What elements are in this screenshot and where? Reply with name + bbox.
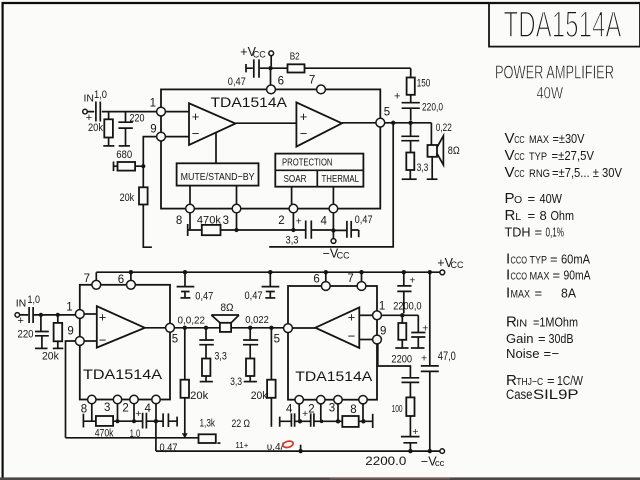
svg-text:2200: 2200 (391, 354, 412, 366)
node feedback tap (391, 121, 395, 125)
+Vcc rail (bottom circuit) (96, 272, 440, 280)
pin 6 (U3) (313, 274, 330, 291)
svg-text:=: = (553, 268, 561, 283)
svg-text:CC: CC (253, 50, 266, 60)
svg-text:V: V (505, 164, 515, 181)
svg-text:7: 7 (84, 273, 90, 285)
svg-text:CC: CC (337, 251, 350, 261)
svg-text:Case: Case (506, 387, 533, 402)
op-amp A1 (U1 first stage) (189, 103, 236, 145)
resistor (bias divider) (398, 315, 406, 347)
capacitor 0,47 (rail decoupling 1) (177, 272, 214, 302)
svg-text:IN: IN (16, 297, 27, 309)
pin 7 (U1) (309, 75, 326, 94)
pin 1 (U1) (150, 98, 166, 116)
svg-text:3,3: 3,3 (214, 351, 227, 363)
capacitor 1,0 elco (U2 fb) (130, 408, 156, 440)
svg-text:−: − (99, 332, 107, 347)
resistor 470k (U2) (95, 416, 114, 440)
svg-text:7: 7 (347, 273, 353, 285)
svg-text:4: 4 (321, 216, 328, 228)
svg-text:RNG: RNG (529, 168, 550, 180)
U3 bottom network: left tick (280, 417, 291, 427)
svg-text:7: 7 (309, 75, 315, 87)
ground (rail cap1) (181, 297, 191, 299)
node boucherot tap (408, 121, 412, 125)
pin 7 (U3) (347, 273, 366, 290)
svg-text:1: 1 (66, 302, 72, 314)
svg-text:−: − (300, 126, 308, 141)
resistor 470k (top feedback) (197, 214, 221, 235)
svg-text:47,0: 47,0 (438, 351, 456, 363)
capacitor 220 (top input) (118, 112, 144, 146)
svg-text:+: + (99, 309, 107, 324)
wire speaker to ground (431, 157, 433, 179)
svg-text:1,0: 1,0 (94, 89, 107, 101)
svg-text:TYP: TYP (530, 254, 548, 266)
pin 7 (U2) (84, 273, 101, 289)
wire pin9 left (143, 137, 156, 167)
MUTE/STAND-BY box (177, 163, 259, 185)
pin 5 (U2) (166, 323, 179, 345)
capacitor (U3 pin4 left) (291, 413, 300, 426)
svg-text:1,3k: 1,3k (200, 418, 216, 430)
svg-text:8: 8 (350, 404, 356, 416)
svg-text:0,47: 0,47 (245, 290, 263, 302)
svg-text:6: 6 (313, 274, 319, 286)
node pin3 riser (236, 213, 238, 230)
svg-text:9: 9 (150, 124, 156, 136)
node pin4R riser (298, 404, 300, 421)
svg-text:90mA: 90mA (564, 268, 591, 283)
node rail/pin6R (324, 270, 328, 274)
svg-text:MUTE/STAND−BY: MUTE/STAND−BY (181, 171, 255, 183)
wire A2 out to pin5 (342, 122, 376, 124)
pin 4 (U2) (145, 395, 161, 415)
node input/220 (39, 313, 43, 317)
node stub (298, 449, 302, 453)
svg-text:+: + (296, 215, 302, 227)
svg-text:=: = (535, 285, 543, 300)
node 2200/100 chain end (408, 449, 412, 453)
svg-text:=±7,5... ± 30V: =±7,5... ± 30V (552, 165, 622, 180)
resistor 3,3 (boucherot R) (230, 359, 254, 388)
pin 2 (U3) (308, 396, 325, 416)
node pin1R bias (400, 313, 404, 317)
pin 4 (U3) (286, 396, 303, 416)
svg-text:CCO: CCO (511, 255, 528, 266)
svg-text:40W: 40W (540, 191, 563, 206)
capacitor 3,3 elco (top feedback) (286, 215, 332, 246)
svg-text:MAX: MAX (530, 271, 551, 283)
svg-text:2: 2 (278, 215, 284, 227)
svg-text:40W: 40W (537, 84, 564, 103)
svg-text:SIL9P: SIL9P (533, 386, 579, 402)
wire A1 out to A2 (236, 122, 297, 124)
svg-text:+: + (421, 352, 427, 364)
svg-text:CC: CC (514, 135, 525, 146)
resistor 1,3k (199, 418, 221, 444)
wire pin1R to A4 (359, 314, 372, 316)
svg-text:30dB: 30dB (549, 331, 574, 346)
capacitor 1,0 (bottom input) (20, 294, 76, 323)
svg-text:THERMAL: THERMAL (322, 173, 360, 185)
ground (rail cap2) (265, 297, 275, 299)
wire pin4 down (332, 213, 334, 239)
title box (489, 3, 640, 47)
svg-text:20k: 20k (251, 390, 268, 402)
pin 1 (U2) (66, 302, 84, 319)
svg-text:9: 9 (67, 326, 73, 338)
node pin3R riser (337, 404, 339, 421)
wire pin9L left and down (66, 341, 76, 438)
svg-text:100: 100 (392, 403, 403, 415)
svg-text:R: R (505, 207, 516, 224)
wire pin6 riser (270, 68, 272, 85)
svg-text:5: 5 (172, 333, 178, 345)
-Vcc terminal (bottom) (421, 449, 445, 469)
speaker 8 Ohm (top circuit) (428, 136, 460, 165)
wire pin1 to A1 (165, 111, 189, 113)
svg-text:0,47: 0,47 (355, 214, 373, 226)
svg-text:TDA1514A: TDA1514A (295, 369, 372, 384)
capacitor elco (U3 fb bottom) (401, 426, 420, 451)
resistor 100 (392, 397, 415, 436)
svg-text:11+: 11+ (235, 441, 248, 450)
capacitor 0,22 (boucherot) (401, 123, 419, 153)
svg-text:20k: 20k (120, 192, 135, 204)
ground (20k bottom) (53, 347, 64, 349)
pin 2 (U1) (278, 204, 298, 227)
U2 bottom network: left tick (83, 414, 96, 428)
wire pin1R right (381, 314, 418, 316)
resistor 680 (114, 149, 144, 171)
svg-text:−: − (552, 346, 560, 361)
wire mute to pin8 (189, 186, 191, 205)
svg-text:=: = (550, 251, 558, 266)
svg-text:V: V (505, 147, 515, 164)
ground (under speaker) (427, 178, 438, 180)
ground (boucherot R) (244, 381, 257, 383)
svg-text:+: + (422, 322, 428, 334)
ground (under 220) (119, 145, 130, 147)
capacitor 220 (bottom input) (18, 315, 49, 348)
node boucherot L tap (204, 326, 208, 330)
output bridge wire right (231, 327, 283, 329)
IC U2 TDA1514A package box (bottom left) (80, 285, 170, 400)
svg-text:1,0: 1,0 (130, 428, 141, 440)
svg-text:−: − (348, 328, 356, 343)
svg-text:=±30V: =±30V (553, 131, 585, 146)
svg-text:O: O (514, 194, 522, 206)
svg-text:20k: 20k (190, 390, 208, 402)
ground (under 20k input) (103, 145, 114, 147)
svg-text:+: + (135, 408, 141, 420)
svg-text:8Ω: 8Ω (221, 302, 234, 314)
output bridge wire left (174, 327, 220, 329)
svg-text:+: + (302, 408, 308, 420)
handwriting 0,4 with red scribble (267, 440, 294, 453)
pin 3 (U1) (223, 204, 241, 227)
svg-text:Gain: Gain (506, 331, 534, 346)
svg-text:IN: IN (516, 317, 527, 329)
svg-text:B2: B2 (290, 51, 300, 63)
-Vcc terminal (top circuit) (323, 239, 350, 261)
node pin2 riser (292, 213, 294, 230)
ground (bias resistor) (395, 347, 408, 349)
svg-text:220,0: 220,0 (422, 102, 443, 114)
svg-text:20k: 20k (88, 122, 103, 134)
svg-text:0,022: 0,022 (245, 314, 269, 326)
svg-text:=: = (535, 225, 543, 240)
svg-text:IN: IN (84, 92, 95, 104)
ground (boucherot L) (200, 381, 213, 383)
svg-text:=: = (528, 191, 536, 206)
svg-text:PROTECTION: PROTECTION (282, 157, 333, 169)
feedback line: tick (187, 224, 189, 236)
+Vcc terminal (top circuit) (240, 45, 273, 60)
svg-text:0,22: 0,22 (436, 122, 452, 134)
svg-text:CC: CC (451, 260, 464, 270)
capacitor (boucherot R) (243, 328, 258, 359)
node input/20k (56, 313, 60, 317)
wire mute to pin3 (236, 186, 238, 205)
svg-text:−: − (192, 126, 200, 141)
node 47,0 end (428, 449, 432, 453)
node 20kL tap (183, 326, 187, 330)
svg-text:TDA1514A: TDA1514A (83, 367, 162, 382)
node rail cap1 (183, 270, 187, 274)
wire pin4L node down to -Vcc wire (155, 421, 157, 451)
svg-text:220: 220 (18, 328, 34, 340)
capacitor (boucherot L) (199, 328, 214, 359)
svg-text:MAX: MAX (529, 134, 550, 146)
resistor 150 (407, 68, 431, 102)
node boucherot R tap (248, 326, 252, 330)
pin 8 (U3) (350, 396, 367, 416)
svg-text:5: 5 (384, 106, 390, 118)
ground (220 bottom) (35, 347, 48, 349)
resistor (U3 fb 470k) (342, 416, 358, 427)
op-amp A4 (U3, mirrored) (315, 307, 359, 348)
capacitor elco (bias decouple) (411, 315, 428, 347)
svg-text:+: + (300, 109, 308, 124)
node rail/2200,0 (402, 270, 406, 274)
node junction 680/pin9 (141, 164, 145, 168)
svg-text:=: = (538, 331, 546, 346)
wire down to 20k (142, 166, 144, 187)
op-amp A3 (U2) (97, 306, 145, 347)
resistor 3,3 (boucherot L) (202, 351, 227, 381)
capacitor 220,0 (elco) (394, 91, 443, 121)
resistor 3,3 (boucherot) (406, 153, 428, 179)
pin 6 (U1) (267, 76, 284, 94)
svg-text:+: + (348, 310, 356, 325)
node pin4L riser (155, 404, 157, 422)
wire 470k to elco (221, 229, 306, 231)
svg-text:1: 1 (379, 300, 385, 312)
wire protection to pin4 (332, 187, 334, 205)
arrow junction onto fb line (182, 433, 188, 438)
node +Vcc junction (268, 66, 272, 70)
wire to pin3R node (322, 420, 343, 422)
svg-text:5: 5 (274, 334, 280, 346)
svg-text:cc: cc (435, 458, 445, 469)
pin 1 (U3) (373, 300, 386, 319)
output wire from pin5 (385, 122, 432, 124)
wire pin9L to A3 (84, 340, 97, 342)
pin 5 (U1) (376, 106, 390, 127)
svg-text:υ,4/: υ,4/ (267, 442, 284, 453)
PROTECTION box (275, 154, 363, 187)
svg-text:TDA1514A: TDA1514A (504, 4, 622, 45)
-Vcc bottom wire (156, 450, 440, 452)
svg-text:TYP: TYP (529, 151, 547, 163)
wire pin8L riser (91, 404, 93, 422)
svg-text:0,47: 0,47 (228, 76, 246, 88)
svg-text:470k: 470k (197, 214, 221, 226)
svg-text:V: V (505, 130, 515, 147)
svg-text:9: 9 (380, 325, 386, 337)
svg-text:20k: 20k (42, 351, 59, 363)
svg-text:Ohm: Ohm (551, 208, 575, 223)
pin 3 (U3) (329, 396, 342, 415)
svg-text:=±27,5V: =±27,5V (552, 148, 595, 163)
svg-text:6: 6 (278, 76, 284, 88)
bottom scan band (0, 477, 640, 480)
svg-text:SOAR: SOAR (284, 173, 307, 185)
resistor 20k (lower, top circuit) (120, 187, 148, 204)
capacitor 2200 (U3 fb) (402, 378, 420, 398)
svg-text:0,47: 0,47 (195, 291, 213, 303)
svg-text:150: 150 (417, 78, 431, 90)
wire to speaker (430, 123, 432, 145)
wire pin9 to A1 (165, 136, 189, 138)
svg-text:6: 6 (118, 274, 124, 286)
pin 4 (U1) (321, 204, 338, 227)
svg-text:0,1%: 0,1% (546, 225, 565, 240)
svg-text:+: + (409, 275, 415, 287)
wire A3 out to pin5L (145, 327, 166, 329)
capacitor 47,0 elco (421, 272, 456, 451)
svg-text:MAX: MAX (511, 288, 531, 300)
op-amp A2 (U1 second stage) (296, 102, 342, 146)
wire stub below 20k (143, 205, 152, 248)
speaker 8 Ohm (bridge) (211, 302, 239, 332)
svg-text:TDH: TDH (505, 225, 531, 240)
right tick (U3 fb) (372, 414, 374, 428)
ground (under 3,3) (402, 178, 417, 180)
+Vcc terminal (bottom) (437, 256, 464, 275)
resistor 20k (left fb divider) (181, 328, 209, 434)
svg-text:CC: CC (514, 169, 525, 180)
feedback wire down right (269, 123, 393, 247)
capacitor 0,47 (Vcc decoupling, top) (228, 59, 268, 88)
svg-text:+: + (394, 91, 400, 103)
IC U3 TDA1514A package box (bottom right) (288, 286, 377, 400)
resistor 20k (bottom input) (42, 315, 62, 363)
node rail/pin6L (129, 270, 133, 274)
svg-text:2200.0: 2200.0 (365, 454, 406, 468)
wire 470k to elco (113, 420, 142, 422)
svg-text:22 Ω: 22 Ω (232, 418, 251, 430)
capacitor 0,47 (top feedback) (333, 214, 372, 238)
svg-text:=: = (544, 346, 552, 361)
svg-text:Noise: Noise (506, 346, 540, 361)
svg-text:8Ω: 8Ω (448, 145, 460, 157)
node pin2R riser (320, 404, 322, 421)
svg-text:220: 220 (130, 113, 145, 125)
node rail/pin7R (359, 270, 363, 274)
svg-text:2200,0: 2200,0 (393, 300, 421, 312)
pin 6 (U2) (118, 274, 136, 289)
svg-text:+: + (192, 109, 200, 124)
svg-text:60mA: 60mA (561, 251, 590, 266)
svg-text:3,3: 3,3 (417, 162, 429, 174)
pin 9 (U1) (150, 124, 165, 141)
input terminal IN (top circuit) (83, 92, 94, 124)
node rail cap2 (268, 270, 272, 274)
wire terminal to node (270, 56, 272, 66)
resistor 20k (right fb divider) (251, 328, 276, 427)
wire pin9R to A4 (359, 339, 372, 341)
svg-text:8: 8 (176, 215, 182, 227)
wire pin9R down-right (378, 344, 411, 378)
wire A1 to mute box (215, 133, 217, 164)
input terminal IN (bottom) (15, 297, 26, 327)
svg-text:680: 680 (116, 149, 132, 161)
node pin3L riser (117, 404, 119, 422)
svg-text:3,3: 3,3 (230, 376, 242, 388)
node pin2L riser (133, 404, 135, 422)
svg-text:2: 2 (122, 402, 128, 414)
svg-text:3: 3 (329, 403, 335, 415)
pin 8 (U2) (81, 395, 96, 415)
svg-text:=1MOhm: =1MOhm (533, 314, 578, 329)
wire A4 out to pin5R (292, 327, 315, 329)
capacitor elco (U3 pin4/2) (300, 408, 321, 427)
svg-text:P: P (505, 190, 515, 207)
svg-text:+: + (18, 315, 24, 327)
svg-text:CCO: CCO (511, 272, 528, 283)
node 20kR tap (269, 326, 273, 330)
svg-text:CC: CC (514, 152, 525, 163)
node pin8R riser (359, 404, 373, 421)
pin 3 (U2) (104, 395, 122, 414)
svg-text:POWER AMPLIFIER: POWER AMPLIFIER (495, 63, 614, 83)
svg-text:0,0,22: 0,0,22 (178, 315, 206, 327)
wire pin8 riser (188, 213, 202, 230)
capacitor 0,47 (rail decoupling 2) (245, 272, 280, 302)
svg-text:3,3: 3,3 (286, 234, 299, 246)
svg-text:+: + (412, 426, 418, 438)
pin 9 (U3) (373, 325, 387, 344)
svg-text:8: 8 (540, 208, 547, 223)
node pin4 junction (331, 228, 335, 232)
svg-text:L: L (515, 211, 521, 223)
svg-text:0,47: 0,47 (160, 442, 178, 454)
47,0 chain from rail (428, 270, 432, 274)
svg-text:470k: 470k (95, 428, 114, 440)
svg-text:1: 1 (150, 98, 156, 110)
svg-text:3: 3 (223, 215, 229, 227)
capacitor 2200,0 elco (bias from rail) (393, 272, 421, 313)
resistor 20k (top input) (88, 112, 113, 146)
capacitor 1,0 (top input) (87, 89, 156, 122)
svg-text:TDA1514A: TDA1514A (211, 95, 288, 110)
resistor B2 (271, 51, 411, 73)
pin 8 (U1) (176, 204, 194, 227)
